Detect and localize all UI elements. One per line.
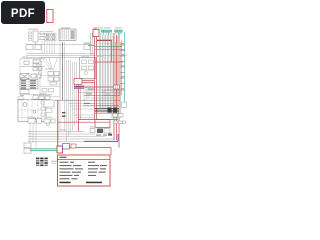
ground block 2 — [113, 108, 117, 113]
svg-text:PDF: PDF — [11, 8, 35, 20]
teal horizontal — [95, 49, 125, 51]
wire ladder verticals (left-center) — [42, 41, 55, 54]
heavy feed wire (dark red) — [97, 39, 112, 41]
wire bus: upper horizontals — [26, 45, 127, 58]
label text — [45, 31, 53, 32]
control unit small box — [44, 100, 54, 107]
wires from relay down — [84, 79, 92, 106]
module cluster bottom center — [90, 129, 110, 134]
red horizontal y119 — [78, 119, 118, 121]
ECU connector frame — [104, 90, 120, 96]
ground bus (dark band) — [95, 108, 119, 111]
instrument cluster box — [18, 100, 46, 122]
connector C101 (top-left fuse block) — [29, 31, 45, 42]
power wire red vertical 1 — [94, 37, 96, 120]
lamp 3 — [33, 118, 36, 121]
horn switch (box with X) — [20, 74, 41, 80]
teal wire bottom — [30, 149, 57, 151]
blue drop — [117, 134, 119, 141]
red riser right 3 — [118, 33, 120, 148]
right gray riser bundle — [91, 33, 121, 120]
text smudges (component labels) — [20, 27, 122, 130]
label text C101 — [28, 29, 38, 30]
cooling fan busbar (teal) 1 — [101, 30, 112, 32]
connector blocks bottom-left — [24, 143, 31, 153]
label text relay — [81, 56, 89, 57]
label text ignition — [61, 27, 70, 28]
red pin ticks right edge — [120, 45, 125, 90]
switch S1 — [24, 61, 29, 65]
red vertical left branch — [78, 85, 80, 132]
sensor boxes row — [33, 96, 50, 100]
contact cluster — [48, 72, 59, 86]
wiring code grid (legend table) — [36, 158, 48, 167]
small connector — [18, 97, 23, 100]
PDF badge — [1, 1, 45, 24]
sub box — [46, 109, 52, 113]
red feed drop (dark) — [57, 100, 59, 146]
red loop box — [95, 120, 110, 128]
red drop to legend — [110, 148, 112, 155]
wire: left spine — [19, 59, 21, 95]
lamp 2 — [33, 110, 36, 113]
blue module wires — [74, 85, 84, 87]
green wire bottom — [30, 148, 57, 150]
green stub — [84, 105, 96, 107]
dark wire marks — [62, 112, 65, 113]
junction block pins — [45, 34, 56, 41]
converging wires — [42, 58, 58, 70]
red horizontal mid — [95, 61, 123, 63]
wires from C101 to junction pins — [36, 34, 46, 45]
legend box — [58, 155, 111, 186]
switch cluster S2 — [33, 60, 41, 67]
fuse boxes row — [26, 45, 41, 50]
busbar teal 2 — [115, 30, 123, 32]
diode module — [20, 90, 29, 94]
bottom-left component boxes — [28, 119, 55, 126]
red vertical branch 2 — [79, 85, 81, 120]
wire: thick dark vertical — [62, 42, 64, 100]
blue sense wire short — [84, 102, 90, 104]
dark module — [97, 129, 103, 134]
blue main wire — [84, 140, 118, 142]
red drop from feed — [111, 40, 113, 62]
label text — [84, 42, 91, 43]
dark chip — [108, 134, 112, 136]
red under-band wire — [95, 112, 119, 114]
wire staircase stubs to right — [69, 104, 96, 118]
red horizontal y122 — [58, 121, 110, 123]
connector pin table — [20, 80, 38, 90]
green wire — [95, 46, 122, 48]
ground block 1 — [108, 108, 112, 113]
red horizontal lower — [74, 86, 120, 88]
red component — [74, 79, 82, 85]
wire: left column horizontals — [20, 59, 52, 95]
red highlight marker box (top) — [47, 10, 53, 23]
red riser right 4 (thin) — [121, 40, 123, 95]
darker horizontals right-center — [55, 96, 120, 101]
relay box (center) — [80, 58, 96, 79]
tiny caption — [51, 161, 57, 162]
ignition switch block — [59, 29, 76, 41]
red top tick — [94, 28, 97, 29]
gray horizontals right-center — [78, 90, 120, 98]
teal drops — [104, 32, 122, 35]
wire verticals bottom-left — [30, 123, 36, 149]
red riser right 2 — [116, 35, 118, 140]
red riser right 1 — [113, 33, 115, 140]
lower comps in frame — [42, 89, 54, 93]
red junction box right — [114, 85, 120, 89]
gauge lamp — [23, 103, 27, 107]
faint cross wire right — [100, 43, 124, 45]
wire bus: lower-left horizontals — [28, 132, 114, 142]
red pin labels right edge — [121, 43, 124, 89]
red link wires — [82, 80, 95, 82]
connector row bottom right — [113, 114, 126, 124]
gray connector small — [71, 144, 76, 148]
wire: long center verticals — [60, 30, 77, 141]
blue connector small — [63, 144, 70, 150]
power wire (red) top box — [93, 30, 99, 37]
red wire to legend — [62, 147, 111, 149]
teal end connector — [122, 102, 127, 108]
red connector bottom — [57, 146, 63, 153]
teal trunk vertical — [124, 32, 126, 102]
power wire red vertical 2 — [96, 37, 98, 120]
small relay (top middle) — [84, 44, 90, 50]
resistor pack — [33, 68, 42, 71]
switch assembly frame (tall center-left box) — [39, 58, 60, 97]
red stub — [88, 44, 95, 46]
